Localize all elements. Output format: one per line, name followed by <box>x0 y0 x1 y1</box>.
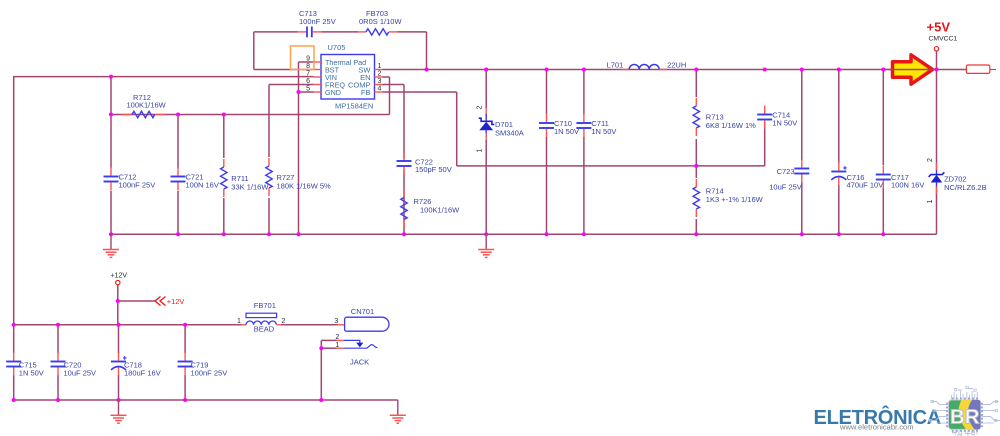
resistor R726 100K1/16W <box>401 190 460 228</box>
svg-text:GND: GND <box>325 88 341 97</box>
junction (696.3,234.2) <box>694 232 698 236</box>
junction (298.5,234.2) <box>297 232 301 236</box>
svg-text:www.eletronicabr.com: www.eletronicabr.com <box>839 422 913 431</box>
svg-text:100nF 25V: 100nF 25V <box>191 368 228 377</box>
svg-text:100N 16V: 100N 16V <box>891 181 924 190</box>
junction (838.8,69.5) <box>837 68 841 72</box>
svg-text:0R0S 1/10W: 0R0S 1/10W <box>359 17 402 26</box>
capacitor C723 10uF 25V <box>769 160 809 192</box>
junction (883.3,234.2) <box>881 232 885 236</box>
zener diode ZD702 NC/RLZ6.2B <box>927 158 987 204</box>
net label box (red) <box>966 65 996 73</box>
svg-text:100K1/16W: 100K1/16W <box>127 101 167 110</box>
wire EN vertical to U705 pin2 <box>383 77 390 115</box>
junction (111,114.5) <box>109 113 113 117</box>
resistor R714 1K3 +-1% 1/16W <box>693 179 764 217</box>
capacitor C712 100nF 25V <box>104 168 156 191</box>
svg-text:180uF 16V: 180uF 16V <box>124 368 161 377</box>
junction (321.3,348.2) <box>319 346 323 350</box>
diode D701 SM340A <box>477 106 524 153</box>
junction (936.5,69.5) <box>935 68 939 72</box>
svg-text:+12V: +12V <box>167 297 185 306</box>
wire FB to divider rail <box>383 92 765 166</box>
junction (486.2,234.2) <box>484 232 488 236</box>
wire +12V rail <box>14 324 338 326</box>
svg-text:U705: U705 <box>328 43 346 52</box>
svg-text:+5V: +5V <box>927 20 951 35</box>
svg-text:1N 50V: 1N 50V <box>772 118 797 127</box>
ground at C718 <box>111 400 127 423</box>
svg-text:JACK: JACK <box>350 358 369 367</box>
svg-text:C723: C723 <box>777 167 795 176</box>
svg-text:2: 2 <box>927 158 934 162</box>
svg-text:9: 9 <box>306 56 310 63</box>
ferrite bead FB701 BEAD <box>237 301 286 333</box>
logo BR chip icon <box>929 386 1000 436</box>
wire C712 branch vertical <box>110 77 112 235</box>
capacitor C719 100nF 25V <box>178 353 228 378</box>
junction (801.8,69.5) <box>800 68 804 72</box>
wire VIN rail top-left vertical <box>13 77 15 325</box>
svg-text:7: 7 <box>306 71 310 78</box>
ground at D701 <box>478 234 494 257</box>
ferrite bead FB703 0R0S 1/10W <box>358 9 402 35</box>
svg-text:1N 50V: 1N 50V <box>554 127 579 136</box>
power arrow +5V output <box>883 55 936 84</box>
junction (58,400) <box>56 398 60 402</box>
wire lower ground rail y400 <box>14 399 398 401</box>
junction (269,234.2) <box>267 232 271 236</box>
junction (546.5,69.5) <box>545 68 549 72</box>
wire CMVCC1 stem <box>936 51 938 70</box>
logo ELETRONICA BR <box>814 405 942 432</box>
resistor R713 6K8 1/16W 1% <box>693 98 756 136</box>
svg-text:2: 2 <box>282 318 286 325</box>
svg-text:1: 1 <box>477 149 484 153</box>
junction (883.3,69.5) <box>881 68 885 72</box>
junction (801.8,234.2) <box>800 232 804 236</box>
wire COMP to C722/R726 chain <box>383 85 405 235</box>
svg-text:470uF 10V: 470uF 10V <box>847 181 884 190</box>
junction (117.8,301) <box>116 299 120 303</box>
wire D701 branch vertical <box>485 70 487 235</box>
svg-text:BR: BR <box>950 405 980 428</box>
junction (223.8,114.5) <box>222 113 226 117</box>
svg-text:5: 5 <box>306 86 310 93</box>
svg-text:33K 1/16W: 33K 1/16W <box>231 183 269 192</box>
junction (764.7,69.5) <box>763 68 767 72</box>
ground at CN701 <box>390 400 406 423</box>
junction (185.1,400) <box>183 398 187 402</box>
connector CN701 JACK <box>334 307 389 367</box>
wire BST bootstrap loop <box>254 32 314 70</box>
wire FREQ to R727 branch <box>269 85 314 235</box>
wire C723 branch vertical <box>801 70 803 235</box>
svg-text:2: 2 <box>477 106 484 110</box>
wire SW rail from U705 pin1 to +5V <box>383 69 967 71</box>
resistor R727 180K 1/16W 5% <box>266 158 331 196</box>
resistor R711 33K 1/16W <box>221 159 270 197</box>
junction (486.2,69.5) <box>484 68 488 72</box>
svg-text:6K8 1/16W 1%: 6K8 1/16W 1% <box>706 121 756 130</box>
svg-text:1: 1 <box>335 342 339 349</box>
junction (696.3,69.5) <box>694 68 698 72</box>
svg-text:100nF 25V: 100nF 25V <box>299 17 336 26</box>
svg-text:100nF 25V: 100nF 25V <box>119 180 156 189</box>
wire thermal-pad/GND branch vertical <box>299 62 314 234</box>
junction (838.8,234.2) <box>837 232 841 236</box>
svg-text:1N 50V: 1N 50V <box>591 127 616 136</box>
wire C718 branch vertical <box>118 325 120 400</box>
svg-text:4: 4 <box>378 86 382 93</box>
svg-text:150pF 50V: 150pF 50V <box>415 165 452 174</box>
wire ZD702 branch vertical <box>936 70 938 235</box>
svg-text:1: 1 <box>237 318 241 325</box>
junction (404,234.2) <box>402 232 406 236</box>
svg-text:6: 6 <box>306 78 310 85</box>
wire EN feedback row y114.5 <box>111 114 390 116</box>
capacitor C715 1N 50V <box>6 353 44 378</box>
wire C721 branch vertical <box>177 115 179 235</box>
capacitor C717 100N 16V <box>876 166 925 190</box>
junction (58,324.8) <box>56 323 60 327</box>
capacitor C722 150pF 50V <box>397 152 452 175</box>
svg-text:NC/RLZ6.2B: NC/RLZ6.2B <box>944 183 987 192</box>
wire ground rail upper y234 <box>111 233 937 235</box>
junction (583.9,69.5) <box>582 68 586 72</box>
svg-text:10uF 25V: 10uF 25V <box>64 368 97 377</box>
orange no-ERC square at U705 <box>291 46 315 70</box>
junction (696.3,165.9) <box>694 164 698 168</box>
capacitor C713 100nF 25V <box>298 9 336 37</box>
offpage connector +12V red <box>155 297 184 307</box>
capacitor C720 10uF 25V <box>51 353 97 378</box>
capacitor C714 1N 50V <box>757 106 797 129</box>
capacitor C710 1N 50V <box>539 114 579 137</box>
svg-text:22UH: 22UH <box>667 61 686 70</box>
junction (223.8,234.2) <box>222 232 226 236</box>
junction (13.7,400) <box>12 398 16 402</box>
junction (178,234.2) <box>176 232 180 236</box>
wire R714 branch vertical <box>695 166 697 234</box>
junction (111,234.2) <box>109 232 113 236</box>
wire R713 branch vertical <box>695 70 697 166</box>
power port CMVCC1 +5V <box>927 20 958 52</box>
capacitor C711 1N 50V <box>576 114 616 137</box>
svg-text:180K 1/16W 5%: 180K 1/16W 5% <box>277 182 332 191</box>
wire FB703 to SW node <box>398 32 427 70</box>
wire jack switch vertical <box>321 340 336 400</box>
svg-text:BEAD: BEAD <box>254 325 275 334</box>
svg-text:L701: L701 <box>607 61 624 70</box>
wire C713 to FB703 segment <box>322 31 359 33</box>
pin stubs ZD702 <box>936 163 938 194</box>
capacitor C721 100N 16V <box>171 168 219 191</box>
svg-text:2: 2 <box>378 71 382 78</box>
junction (118.5,324.8) <box>117 323 121 327</box>
svg-text:+12V: +12V <box>111 273 128 280</box>
wire +12V offpage branch <box>118 300 156 302</box>
svg-text:FB701: FB701 <box>254 301 276 310</box>
svg-text:100N 16V: 100N 16V <box>186 180 219 189</box>
wire C720 branch vertical <box>57 325 59 400</box>
op-amp U705 MP1584EN regulator <box>306 43 382 111</box>
svg-text:2: 2 <box>335 334 339 341</box>
wire C719 branch vertical <box>184 325 186 400</box>
svg-text:1K3 +-1% 1/16W: 1K3 +-1% 1/16W <box>706 195 764 204</box>
ground at C712 <box>103 234 119 257</box>
svg-text:CN701: CN701 <box>351 307 374 316</box>
svg-text:FB: FB <box>361 88 371 97</box>
wire C717 branch vertical <box>882 70 884 235</box>
svg-text:1: 1 <box>378 63 382 70</box>
inductor L701 22UH <box>607 61 687 70</box>
svg-text:10uF 25V: 10uF 25V <box>769 183 802 192</box>
resistor R712 100K1/16W <box>122 93 167 118</box>
svg-text:3: 3 <box>378 78 382 85</box>
svg-text:1N 50V: 1N 50V <box>19 368 44 377</box>
junction (298.5,92) <box>297 90 301 94</box>
wire VIN rail horizontal to U705 pin7 <box>13 76 314 78</box>
junction (426.5,69.5) <box>425 68 429 72</box>
wire +12V port stem <box>117 285 119 325</box>
junction (13.7,324.8) <box>12 323 16 327</box>
wire C715 branch vertical <box>13 325 15 400</box>
svg-text:MP1584EN: MP1584EN <box>335 102 373 111</box>
svg-text:3: 3 <box>334 318 338 325</box>
junction (321.3,400) <box>319 398 323 402</box>
junction (178,114.5) <box>176 113 180 117</box>
wire C716 branch vertical <box>838 70 840 235</box>
wire C710 branch vertical <box>546 70 548 235</box>
junction (111,76.6) <box>109 75 113 79</box>
wire R711 branch vertical <box>223 115 225 235</box>
junction (546.5,234.2) <box>545 232 549 236</box>
power port +12V <box>111 273 128 285</box>
junction (118.5,400) <box>117 398 121 402</box>
wire C711 branch vertical <box>583 70 585 235</box>
capacitor C718 180uF 16V <box>111 353 161 378</box>
svg-text:1: 1 <box>927 200 934 204</box>
svg-text:SM340A: SM340A <box>495 128 524 137</box>
svg-text:100K1/16W: 100K1/16W <box>420 206 460 215</box>
junction (583.9,234.2) <box>582 232 586 236</box>
capacitor C716 470uF 10V <box>831 163 883 190</box>
svg-text:CMVCC1: CMVCC1 <box>929 36 958 43</box>
junction (185.1,324.8) <box>183 323 187 327</box>
